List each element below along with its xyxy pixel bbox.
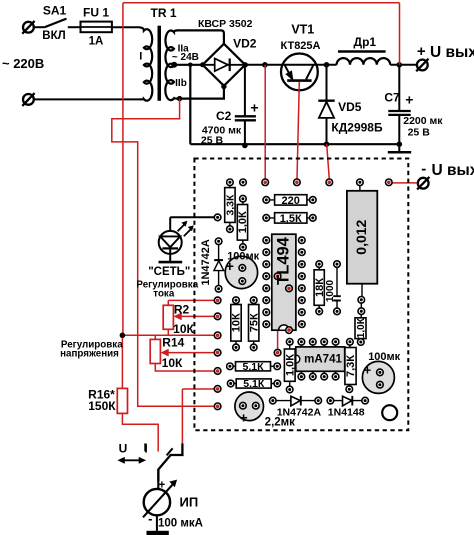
svg-text:+: + xyxy=(226,258,234,274)
svg-text:100 мкА: 100 мкА xyxy=(158,517,203,529)
svg-text:КВСР 3502: КВСР 3502 xyxy=(198,18,253,30)
svg-text:+: + xyxy=(250,100,258,116)
svg-text:FU 1: FU 1 xyxy=(83,6,109,20)
svg-text:TL494: TL494 xyxy=(275,236,293,285)
svg-text:1,0К: 1,0К xyxy=(237,211,249,233)
svg-text:mA741: mA741 xyxy=(304,354,342,366)
svg-text:R2: R2 xyxy=(174,303,190,317)
svg-text:КД2998Б: КД2998Б xyxy=(331,121,383,135)
svg-text:Др1: Др1 xyxy=(354,35,377,49)
svg-text:1N4742A: 1N4742A xyxy=(277,407,322,419)
svg-text:IIb: IIb xyxy=(175,78,187,89)
svg-text:C2: C2 xyxy=(216,109,232,123)
svg-text:"СЕТЬ": "СЕТЬ" xyxy=(148,266,190,278)
svg-text:1N4148: 1N4148 xyxy=(328,407,365,419)
svg-text:1А: 1А xyxy=(89,35,104,47)
svg-text:SA1: SA1 xyxy=(43,4,67,18)
svg-text:VT1: VT1 xyxy=(291,22,314,36)
svg-text:+: + xyxy=(159,480,166,492)
svg-text:150К: 150К xyxy=(88,399,116,413)
svg-text:1000: 1000 xyxy=(325,279,336,302)
svg-text:1,0К: 1,0К xyxy=(356,317,367,338)
svg-text:18К: 18К xyxy=(314,278,326,297)
svg-text:1,5К: 1,5К xyxy=(280,213,302,225)
svg-text:ВКЛ: ВКЛ xyxy=(42,30,65,42)
svg-text:10К: 10К xyxy=(162,356,183,370)
svg-text:тока: тока xyxy=(153,288,175,299)
svg-text:100мк: 100мк xyxy=(368,351,400,363)
svg-text:ИП: ИП xyxy=(180,494,199,509)
svg-text:25 В: 25 В xyxy=(408,127,431,139)
svg-text:КТ825А: КТ825А xyxy=(280,40,320,52)
svg-text:U вых: U вых xyxy=(432,162,474,179)
svg-text:+: + xyxy=(417,43,426,60)
svg-text:+: + xyxy=(240,409,248,425)
svg-text:220: 220 xyxy=(282,195,300,207)
svg-text:~ 220В: ~ 220В xyxy=(2,56,44,71)
svg-text:10К: 10К xyxy=(173,322,194,336)
svg-text:-: - xyxy=(148,511,152,526)
svg-text:+: + xyxy=(364,362,372,377)
svg-text:0,012: 0,012 xyxy=(353,219,369,254)
svg-text:1N4742A: 1N4742A xyxy=(200,239,212,286)
svg-text:1,0К: 1,0К xyxy=(285,354,297,376)
svg-text:2200 мк: 2200 мк xyxy=(403,115,443,127)
svg-text:5,1К: 5,1К xyxy=(242,361,264,373)
svg-text:R14: R14 xyxy=(162,336,184,350)
svg-text:25 В: 25 В xyxy=(201,135,224,147)
svg-text:75К: 75К xyxy=(248,313,260,332)
svg-text:3,3К: 3,3К xyxy=(225,194,237,216)
svg-text:I: I xyxy=(144,441,147,455)
svg-text:+: + xyxy=(405,92,413,108)
svg-text:I: I xyxy=(139,51,142,63)
svg-text:напряжения: напряжения xyxy=(60,348,119,359)
svg-text:5,1К: 5,1К xyxy=(243,378,265,390)
svg-text:TR 1: TR 1 xyxy=(150,6,176,20)
svg-text:7,3К: 7,3К xyxy=(345,355,357,377)
svg-text:U вых: U вых xyxy=(430,44,474,61)
svg-text:VD5: VD5 xyxy=(338,100,362,114)
svg-text:~ 24В: ~ 24В xyxy=(172,52,199,63)
svg-text:U: U xyxy=(119,441,128,455)
svg-text:C7: C7 xyxy=(384,91,400,105)
svg-text:-: - xyxy=(421,160,426,177)
svg-text:10К: 10К xyxy=(231,313,243,332)
svg-text:VD2: VD2 xyxy=(233,37,257,51)
